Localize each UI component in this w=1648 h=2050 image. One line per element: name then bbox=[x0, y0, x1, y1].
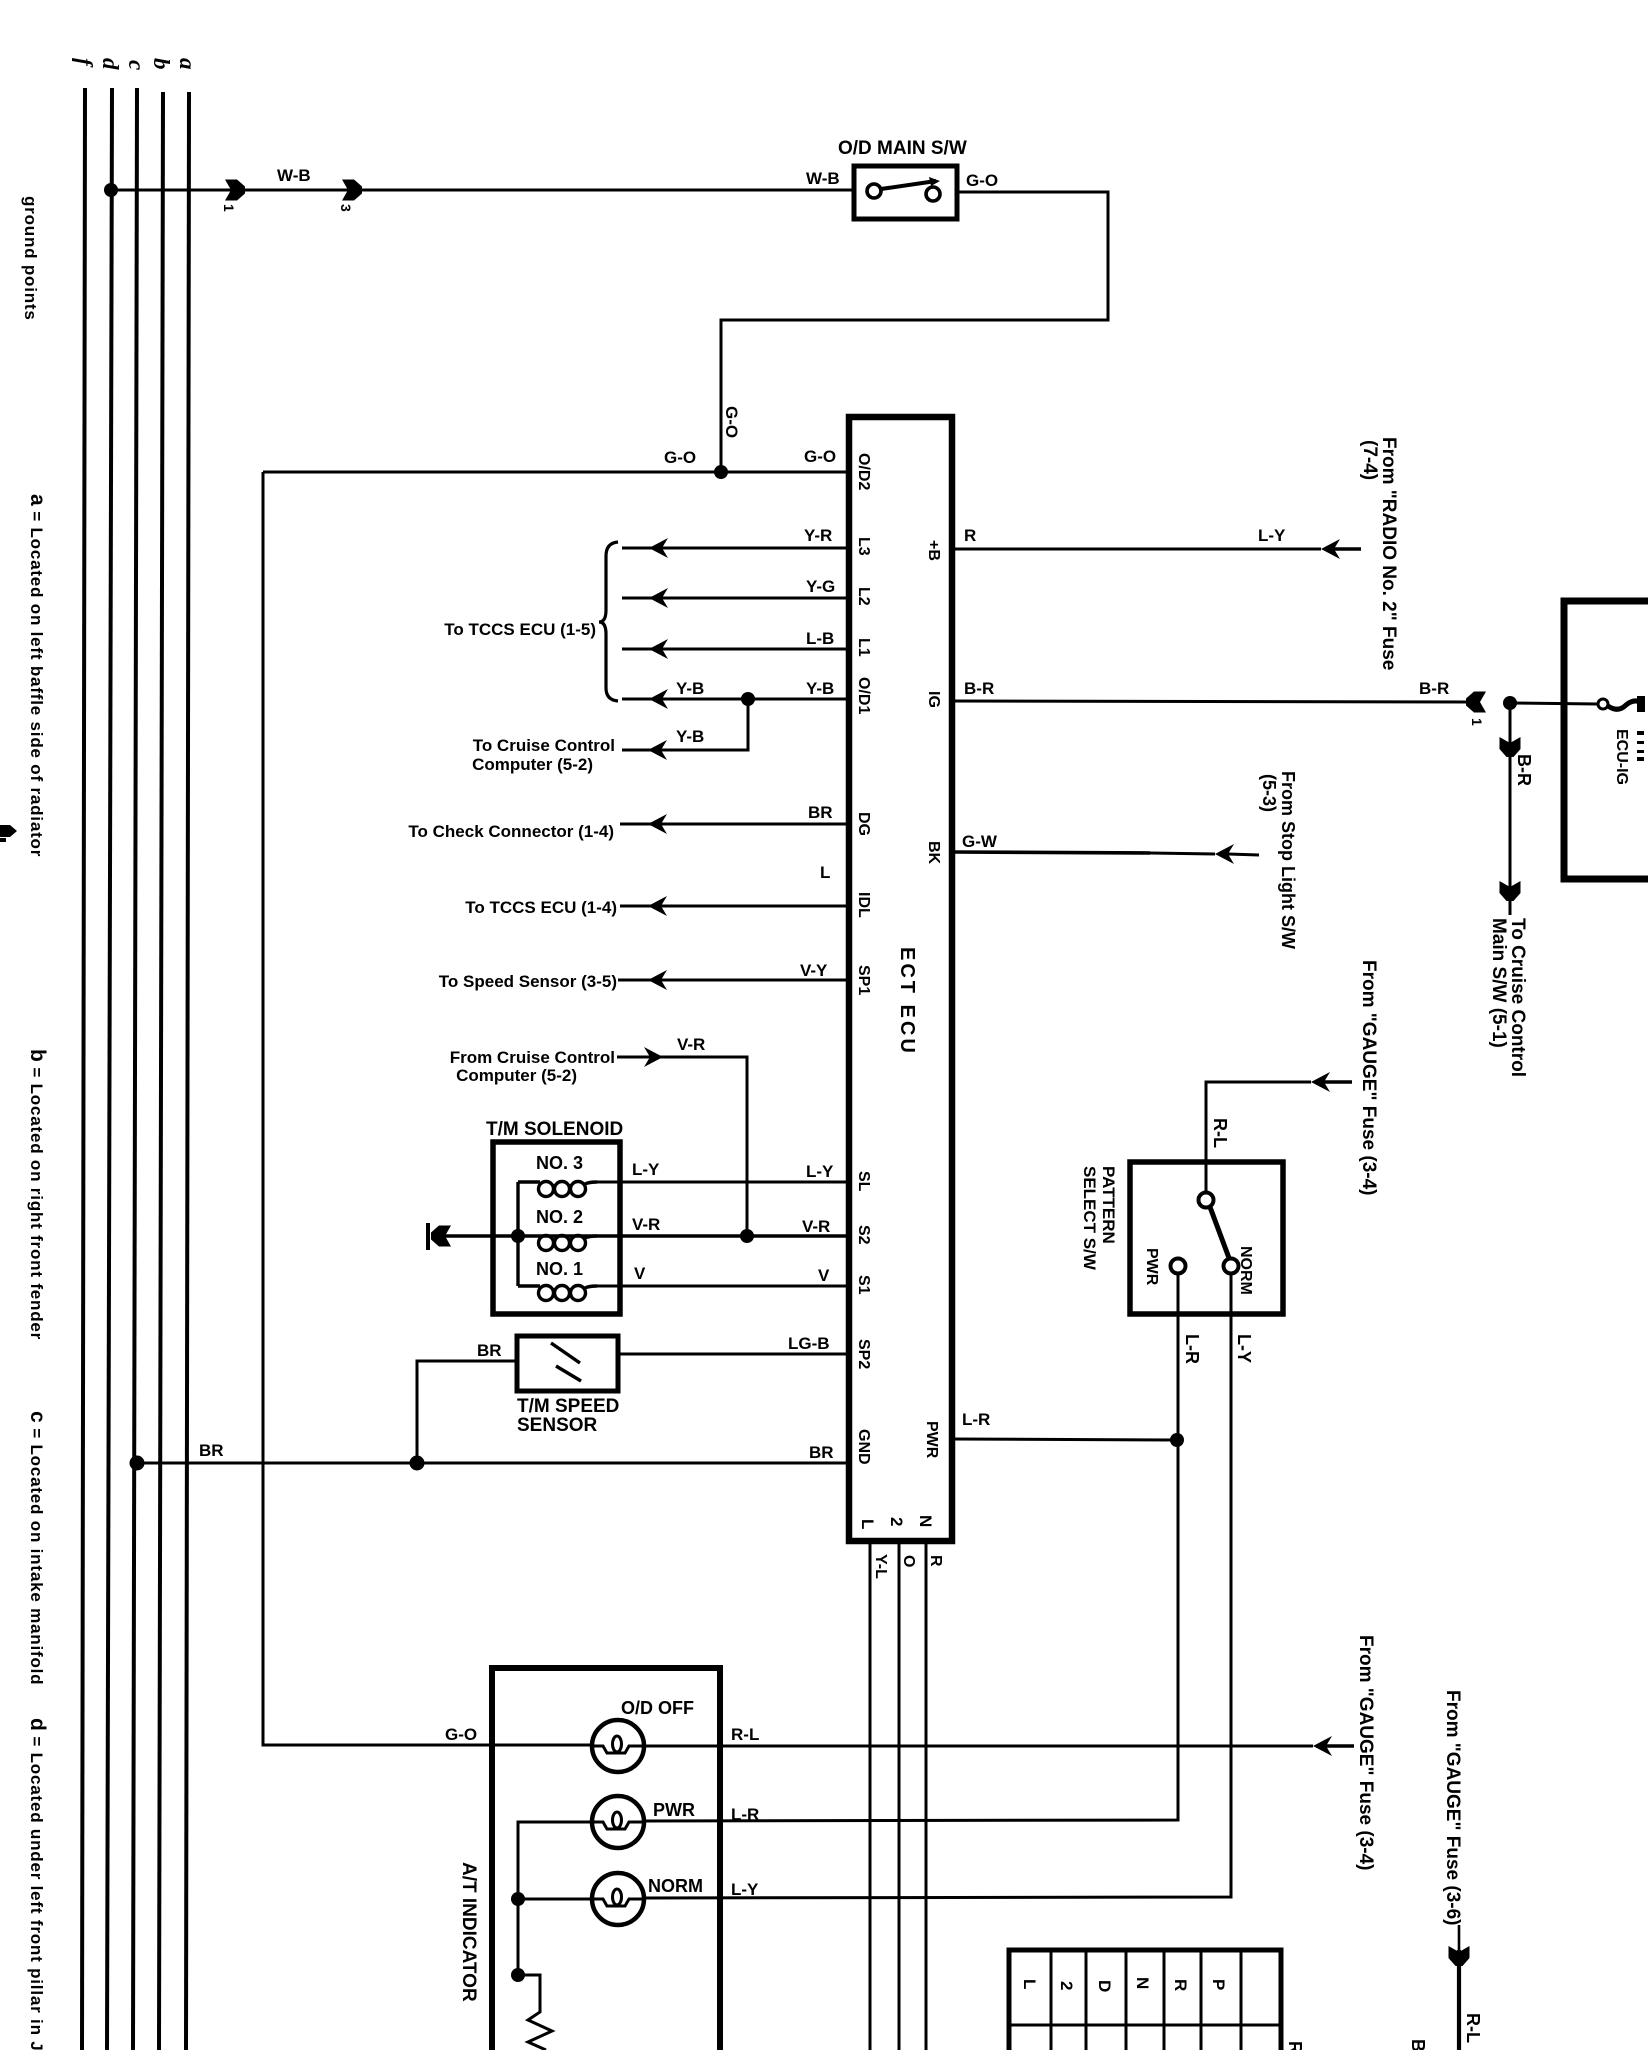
svg-text:Y-G: Y-G bbox=[806, 577, 835, 596]
svg-text:c: c bbox=[124, 60, 149, 70]
wire from gauge 3-6 down bbox=[1458, 1925, 1461, 1950]
wire GND BR bbox=[137, 1462, 849, 1465]
svg-text:From Stop Light S/W: From Stop Light S/W bbox=[1278, 771, 1298, 949]
svg-text:1: 1 bbox=[221, 204, 237, 212]
resistor bbox=[518, 1975, 552, 2050]
svg-text:To Check Connector (1-4): To Check Connector (1-4) bbox=[408, 822, 614, 841]
wire DG BR bbox=[620, 823, 849, 826]
switch contact left bbox=[867, 184, 881, 198]
svg-text:L-Y: L-Y bbox=[731, 1880, 759, 1899]
svg-text:Y-R: Y-R bbox=[804, 526, 832, 545]
svg-text:D: D bbox=[1095, 1980, 1114, 1992]
switch arm bbox=[881, 181, 936, 189]
lamp NORM bbox=[592, 1873, 644, 1925]
wire G-O to O/D2 bbox=[263, 471, 849, 474]
O/D main switch box bbox=[854, 166, 957, 219]
T/M solenoid box bbox=[493, 1142, 620, 1314]
wire L-R pattern to lamp bbox=[644, 1273, 1178, 1821]
svg-text:3: 3 bbox=[338, 204, 354, 212]
svg-text:R-L: R-L bbox=[1285, 2041, 1305, 2050]
pattern select switch box bbox=[1130, 1162, 1283, 1314]
wire 2 O to bottom bbox=[898, 1544, 901, 2050]
wire L3 Y-R bbox=[622, 547, 849, 550]
svg-text:R-L: R-L bbox=[1210, 1118, 1230, 1148]
node BR sensor junction bbox=[410, 1456, 425, 1471]
ground connector arrow bbox=[431, 1226, 451, 1247]
wire R-L from O/D OFF lamp bbox=[644, 1745, 1313, 1748]
svg-text:N: N bbox=[1133, 1977, 1152, 1989]
svg-text:d: d bbox=[98, 58, 123, 70]
svg-text:L: L bbox=[820, 863, 830, 882]
wire N R to bottom bbox=[925, 1544, 928, 2050]
connector arrow 1 B-R bbox=[1466, 692, 1486, 713]
A/T indicator box bbox=[492, 1668, 720, 2050]
svg-text:V-R: V-R bbox=[802, 1217, 830, 1236]
svg-text:L-Y: L-Y bbox=[806, 1162, 834, 1181]
svg-text:N: N bbox=[916, 1515, 935, 1527]
svg-text:S2: S2 bbox=[855, 1225, 872, 1245]
svg-text:B-R: B-R bbox=[1514, 754, 1534, 786]
svg-text:G-W: G-W bbox=[962, 832, 998, 851]
svg-text:T/M SPEED: T/M SPEED bbox=[517, 1396, 619, 1417]
svg-text:SENSOR: SENSOR bbox=[517, 1415, 598, 1436]
svg-text:c = Located on intake manifold: c = Located on intake manifold bbox=[26, 1411, 49, 1685]
svg-text:BR: BR bbox=[199, 1441, 224, 1460]
wire SP2 LG-B bbox=[618, 1353, 849, 1356]
svg-text:To Speed Sensor (3-5): To Speed Sensor (3-5) bbox=[439, 972, 617, 991]
wire SP1 V-Y bbox=[618, 979, 849, 982]
svg-text:V: V bbox=[818, 1266, 830, 1285]
node solenoid bus bbox=[511, 1229, 525, 1243]
node B-R junction bbox=[1503, 696, 1517, 710]
svg-text:NORM: NORM bbox=[648, 1876, 703, 1896]
contact NORM bbox=[1224, 1259, 1239, 1274]
svg-text:V-R: V-R bbox=[632, 1215, 660, 1234]
svg-text:To TCCS ECU (1-4): To TCCS ECU (1-4) bbox=[465, 898, 617, 917]
switch arm bbox=[1210, 1207, 1229, 1258]
svg-text:From "GAUGE" Fuse (3-4): From "GAUGE" Fuse (3-4) bbox=[1355, 1635, 1376, 1871]
T/M speed sensor box bbox=[517, 1336, 618, 1391]
node resistor branch bbox=[511, 1968, 525, 1982]
coil NO.2 bbox=[539, 1236, 598, 1251]
svg-text:IG: IG bbox=[925, 691, 942, 708]
wire L-Y pattern to lamp bbox=[644, 1273, 1231, 1898]
svg-text:S1: S1 bbox=[855, 1275, 872, 1295]
svg-text:IDL: IDL bbox=[855, 892, 872, 918]
svg-text:L-Y: L-Y bbox=[1234, 1334, 1254, 1363]
wire BK G-W bbox=[952, 852, 1150, 853]
svg-text:L1: L1 bbox=[855, 638, 872, 657]
node NORM bus bbox=[511, 1892, 525, 1906]
svg-text:To TCCS ECU (1-5): To TCCS ECU (1-5) bbox=[444, 620, 596, 639]
svg-text:L-Y: L-Y bbox=[1258, 526, 1286, 545]
connector arrow 1 bbox=[225, 180, 245, 201]
neutral start switch table bbox=[1009, 1950, 1281, 2050]
svg-text:From "GAUGE" Fuse (3-6): From "GAUGE" Fuse (3-6) bbox=[1442, 1690, 1463, 1926]
node G-O junction bbox=[714, 465, 728, 479]
svg-text:Y-L: Y-L bbox=[872, 1554, 889, 1579]
svg-text:DG: DG bbox=[855, 812, 872, 836]
svg-text:O/D1: O/D1 bbox=[855, 677, 872, 714]
svg-text:V: V bbox=[634, 1264, 646, 1283]
wire IG B-R bbox=[952, 701, 1469, 702]
solenoid bus wire bbox=[516, 1182, 519, 1286]
svg-text:b: b bbox=[149, 58, 174, 70]
svg-text:NORM: NORM bbox=[1237, 1246, 1254, 1295]
wire R-L from gauge fuse bbox=[1206, 1082, 1311, 1193]
svg-text:a = Located on left baffle si: a = Located on left baffle side of radia… bbox=[26, 494, 49, 857]
svg-text:NO. 3: NO. 3 bbox=[536, 1153, 583, 1173]
svg-text:R: R bbox=[964, 526, 976, 545]
svg-text:L: L bbox=[1020, 1979, 1039, 1989]
fuse symbol bbox=[1598, 699, 1608, 709]
connector arrow 3 bbox=[342, 180, 362, 201]
svg-text:BR: BR bbox=[477, 1341, 502, 1360]
ground point line c bbox=[133, 88, 137, 2050]
wire L1 L-B bbox=[622, 648, 849, 651]
svg-text:R-L: R-L bbox=[1463, 2013, 1483, 2043]
wire V-R from cruise control bbox=[617, 1057, 747, 1236]
ground point line a bbox=[186, 92, 189, 2050]
wire Y-B branch to cruise control bbox=[622, 699, 748, 750]
svg-text:BK: BK bbox=[925, 841, 942, 865]
ECT ECU box bbox=[849, 417, 952, 1541]
svg-text:V-Y: V-Y bbox=[800, 961, 828, 980]
svg-text:a: a bbox=[175, 58, 200, 70]
wire L Y-L to bottom bbox=[869, 1544, 872, 2050]
svg-text:O: O bbox=[900, 1555, 917, 1567]
svg-text:G-O: G-O bbox=[966, 171, 998, 190]
svg-text:L-Y: L-Y bbox=[632, 1160, 660, 1179]
svg-text:(7-4): (7-4) bbox=[1359, 440, 1380, 480]
svg-text:T/M SOLENOID: T/M SOLENOID bbox=[486, 1119, 623, 1140]
svg-text:To Cruise Control: To Cruise Control bbox=[473, 736, 615, 755]
svg-text:L-B: L-B bbox=[806, 629, 834, 648]
svg-text:G-O: G-O bbox=[445, 1725, 477, 1744]
node O/D1 branch bbox=[741, 692, 755, 706]
wire sensor to BR ground bbox=[417, 1361, 517, 1464]
svg-text:Computer (5-2): Computer (5-2) bbox=[456, 1066, 577, 1085]
svg-text:PWR: PWR bbox=[923, 1421, 940, 1459]
svg-text:R: R bbox=[1171, 1979, 1190, 1991]
svg-text:R: R bbox=[927, 1555, 944, 1567]
node S2 cruise junction bbox=[740, 1229, 754, 1243]
wire +B R / L-Y bbox=[952, 548, 1321, 551]
svg-text:Y-B: Y-B bbox=[676, 727, 704, 746]
node BR on line c bbox=[130, 1456, 145, 1471]
switch contact right bbox=[926, 187, 940, 201]
svg-text:From "RADIO No. 2" Fuse: From "RADIO No. 2" Fuse bbox=[1378, 437, 1399, 670]
svg-text:L3: L3 bbox=[855, 537, 872, 556]
svg-text:SP2: SP2 bbox=[855, 1339, 872, 1369]
wire B-R down to cruise main switch bbox=[1509, 703, 1512, 915]
svg-text:O/D MAIN S/W: O/D MAIN S/W bbox=[838, 138, 967, 159]
svg-text:L-R: L-R bbox=[1182, 1334, 1202, 1364]
svg-text:PATTERN: PATTERN bbox=[1099, 1166, 1118, 1244]
svg-text:P: P bbox=[1209, 1979, 1228, 1990]
svg-text:+B: +B bbox=[925, 540, 942, 561]
svg-text:B-R: B-R bbox=[1408, 2039, 1428, 2050]
svg-text:Computer (5-2): Computer (5-2) bbox=[472, 755, 593, 774]
svg-text:(5-3): (5-3) bbox=[1259, 774, 1279, 812]
svg-text:O/D2: O/D2 bbox=[855, 453, 872, 490]
junction dot on line d bbox=[104, 183, 118, 197]
svg-text:2: 2 bbox=[887, 1517, 906, 1526]
svg-text:NO. 1: NO. 1 bbox=[536, 1259, 583, 1279]
svg-text:R-L: R-L bbox=[731, 1725, 759, 1744]
wire L2 Y-G bbox=[622, 597, 849, 600]
svg-text:V-R: V-R bbox=[677, 1035, 705, 1054]
svg-text:To Cruise Control: To Cruise Control bbox=[1507, 918, 1528, 1077]
svg-text:G-O: G-O bbox=[664, 448, 696, 467]
svg-text:PWR: PWR bbox=[653, 1800, 695, 1820]
svg-text:L: L bbox=[858, 1519, 877, 1529]
contact PWR bbox=[1171, 1259, 1186, 1274]
wire PWR L-R bbox=[952, 1439, 1177, 1440]
wire W-B ground to O/D main switch bbox=[111, 189, 854, 192]
node L-R junction bbox=[1170, 1433, 1184, 1447]
svg-text:G-O: G-O bbox=[722, 406, 741, 438]
switch common contact bbox=[1199, 1193, 1214, 1208]
svg-text:b = Located on right front fen: b = Located on right front fender bbox=[26, 1049, 49, 1340]
ground point line d bbox=[107, 88, 112, 2050]
wire IDL L bbox=[620, 905, 849, 908]
svg-text:d = Located under left front p: d = Located under left front pillar in J… bbox=[26, 1718, 49, 2050]
ground point line b bbox=[159, 92, 163, 2050]
svg-text:From Cruise Control: From Cruise Control bbox=[450, 1048, 615, 1067]
lamp PWR bbox=[592, 1796, 644, 1848]
svg-text:A/T INDICATOR: A/T INDICATOR bbox=[458, 1862, 479, 2002]
margin mark bbox=[0, 825, 17, 842]
svg-text:Y-B: Y-B bbox=[676, 679, 704, 698]
lamp O/D OFF bbox=[592, 1720, 644, 1772]
svg-text:W-B: W-B bbox=[277, 166, 311, 185]
svg-text:ECU-IG: ECU-IG bbox=[1613, 729, 1630, 785]
svg-text:SL: SL bbox=[855, 1171, 872, 1192]
svg-text:ECT ECU: ECT ECU bbox=[896, 947, 918, 1056]
svg-text:LG-B: LG-B bbox=[788, 1334, 830, 1353]
svg-text:L2: L2 bbox=[855, 587, 872, 606]
svg-text:BR: BR bbox=[809, 1443, 834, 1462]
svg-text:O/D OFF: O/D OFF bbox=[621, 1698, 694, 1718]
wire G-O down to A/T indicator bbox=[263, 472, 592, 1745]
coil NO.1 bbox=[518, 1286, 597, 1301]
svg-text:1: 1 bbox=[1469, 718, 1485, 726]
svg-text:NO. 2: NO. 2 bbox=[536, 1207, 583, 1227]
svg-text:SELECT S/W: SELECT S/W bbox=[1080, 1166, 1099, 1271]
svg-text:PWR: PWR bbox=[1143, 1248, 1160, 1286]
svg-text:From "GAUGE" Fuse (3-4): From "GAUGE" Fuse (3-4) bbox=[1358, 960, 1379, 1196]
ECU-IG fuse box bbox=[1564, 601, 1648, 879]
lamp internal bus bbox=[518, 1822, 592, 1975]
svg-text:L-R: L-R bbox=[731, 1805, 759, 1824]
wire G-O from switch bbox=[721, 192, 1108, 472]
wire S1 V bbox=[597, 1285, 849, 1288]
svg-text:SP1: SP1 bbox=[855, 965, 872, 995]
svg-text:BR: BR bbox=[808, 803, 833, 822]
svg-text:G-O: G-O bbox=[804, 447, 836, 466]
wire S2 V-R bbox=[431, 1234, 849, 1237]
coil NO.3 bbox=[518, 1182, 597, 1197]
svg-text:GND: GND bbox=[855, 1429, 872, 1465]
svg-text:W-B: W-B bbox=[806, 169, 840, 188]
svg-text:Y-B: Y-B bbox=[806, 679, 834, 698]
brace TCCS bbox=[599, 542, 618, 701]
svg-text:B-R: B-R bbox=[964, 679, 994, 698]
ground point line f bbox=[82, 88, 85, 2050]
wire O/D1 Y-B bbox=[622, 698, 849, 701]
svg-text:L-R: L-R bbox=[962, 1410, 990, 1429]
wire SL L-Y bbox=[597, 1181, 849, 1184]
svg-text:Main S/W (5-1): Main S/W (5-1) bbox=[1488, 918, 1509, 1048]
svg-text:ground points: ground points bbox=[21, 196, 40, 321]
svg-text:2: 2 bbox=[1057, 1981, 1076, 1990]
wire into ECU-IG fuse bbox=[1510, 703, 1598, 704]
svg-text:B-R: B-R bbox=[1419, 679, 1449, 698]
